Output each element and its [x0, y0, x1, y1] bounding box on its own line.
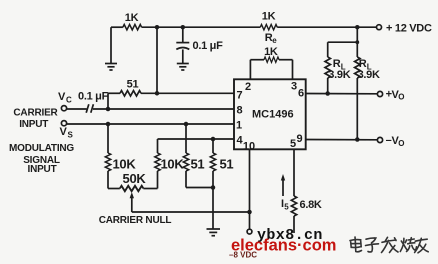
wire RL1 branch [328, 41, 358, 43]
svg-text:V: V [60, 126, 68, 138]
svg-text:0.1 μF: 0.1 μF [193, 40, 224, 52]
terminal Vc carrier input [61, 106, 66, 111]
svg-text:7: 7 [236, 90, 242, 102]
resistor RL 3.9K (left) [325, 57, 330, 78]
wire RL2 vertical [356, 27, 358, 57]
svg-text:51: 51 [191, 157, 205, 172]
IC U1 MC1496 balanced modulator [234, 79, 306, 149]
svg-text:6: 6 [298, 88, 304, 100]
capacitor 0.1uF carrier coupling [66, 104, 234, 113]
node 10K tap [106, 122, 111, 127]
potentiometer 50K carrier null [108, 188, 120, 190]
svg-text:10K: 10K [161, 157, 185, 172]
wire top supply rail [111, 26, 123, 28]
svg-text:9: 9 [296, 133, 302, 145]
svg-text:0.1 μF: 0.1 μF [78, 91, 109, 103]
svg-text:R: R [359, 58, 367, 70]
capacitor 0.1uF (bypass) [176, 27, 189, 63]
terminal +Vo [377, 91, 382, 96]
wire ground drop from 1K left [110, 27, 112, 63]
resistor 51 (carrier bias) [108, 92, 120, 94]
wire 51 to carrier [107, 93, 109, 109]
svg-text:MC1496: MC1496 [252, 109, 294, 121]
svg-text:S: S [68, 131, 74, 140]
svg-text:1K: 1K [264, 46, 278, 58]
svg-text:10K: 10K [113, 157, 137, 172]
resistor 1K gain (bridge pins 2-3) [250, 60, 292, 80]
svg-text:5: 5 [284, 203, 289, 212]
svg-text:2: 2 [245, 81, 251, 93]
svg-text:elecfans·com: elecfans·com [231, 237, 336, 255]
resistor 1K (left bias) [123, 25, 142, 30]
node carrier junction [106, 107, 111, 112]
wiper arrow [131, 195, 133, 212]
svg-text:6.8K: 6.8K [300, 199, 322, 211]
svg-text:O: O [398, 93, 404, 102]
node 51-2 tap [211, 137, 216, 142]
resistor 6.8K bias [293, 149, 295, 196]
resistor RL 3.9K (right) [355, 57, 360, 78]
resistor Re 1K [260, 25, 277, 30]
resistor 51 (pin 4) [212, 139, 214, 153]
svg-text:3.9K: 3.9K [328, 69, 350, 81]
wire 51 bottoms to ground [186, 187, 213, 189]
svg-text:1K: 1K [125, 12, 139, 24]
terminal -8 VDC [247, 229, 252, 234]
node 51 tap [184, 122, 189, 127]
terminal Vs modulating input [61, 121, 66, 126]
wire carrier null to -8V [132, 211, 250, 213]
terminal -Vo [377, 137, 382, 142]
svg-text:51: 51 [220, 157, 234, 172]
watermark chinese [350, 237, 428, 253]
svg-text:R: R [333, 58, 341, 70]
ground [177, 64, 189, 71]
svg-text:3: 3 [291, 81, 297, 93]
node cap junction [181, 25, 186, 30]
current arrow I5 [282, 179, 284, 197]
wire pin 10 to -8VDC [249, 149, 251, 229]
ground [105, 64, 117, 71]
terminal +12 VDC [377, 25, 382, 30]
svg-text:CARRIER NULL: CARRIER NULL [99, 215, 172, 226]
svg-text:O: O [398, 139, 404, 148]
ground [207, 229, 221, 236]
svg-text:MODULATING: MODULATING [9, 143, 74, 154]
wire -Vo line [306, 139, 378, 141]
svg-text:INPUT: INPUT [27, 164, 56, 175]
svg-text:INPUT: INPUT [19, 119, 48, 130]
wire +Vo line [306, 93, 378, 95]
node bias junction [155, 25, 160, 30]
svg-text:8: 8 [236, 105, 242, 117]
svg-text:3.9K: 3.9K [358, 69, 380, 81]
svg-text:51: 51 [127, 79, 139, 91]
wire Vs to pin 1 [66, 123, 234, 125]
svg-text:5: 5 [290, 138, 296, 150]
svg-text:CARRIER: CARRIER [13, 108, 58, 119]
svg-text:50K: 50K [123, 171, 147, 186]
svg-text:1: 1 [236, 120, 242, 132]
resistor 51 (pin 1) [185, 124, 187, 153]
svg-text:1K: 1K [262, 11, 276, 23]
resistor 10K (left) [107, 124, 109, 153]
svg-text:C: C [66, 96, 72, 105]
svg-text:V: V [58, 91, 66, 103]
wire bias vertical [156, 27, 158, 93]
svg-text:e: e [272, 36, 277, 45]
svg-text:+ 12 VDC: + 12 VDC [386, 23, 432, 35]
resistor 10K (right) [157, 139, 159, 153]
node bias/51 junction [155, 91, 160, 96]
wire pin 4 line [158, 138, 235, 140]
node +12 junction [355, 25, 360, 30]
